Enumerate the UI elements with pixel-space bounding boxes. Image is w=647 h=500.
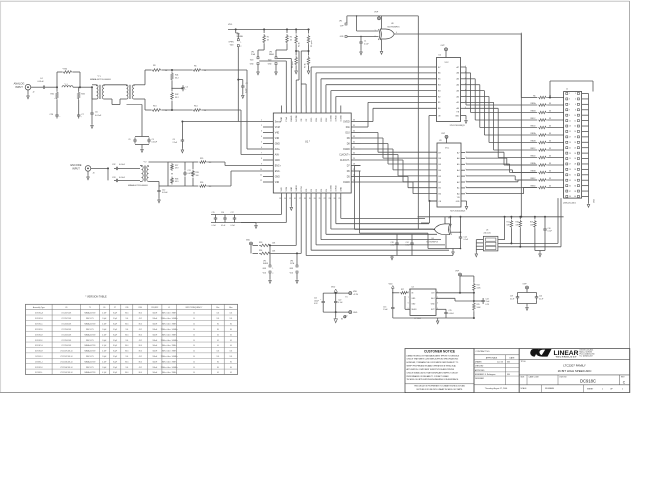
- wire top of connector: [550, 80, 593, 82]
- svg-text:LTC2206CUK: LTC2206CUK: [61, 329, 72, 331]
- svg-text:V4D: V4D: [275, 138, 280, 140]
- wire encode to ADC ENC-: [208, 185, 232, 187]
- svg-text:23: 23: [569, 153, 571, 155]
- svg-text:DC918C-H: DC918C-H: [35, 351, 44, 353]
- ground ADC bottom: [290, 201, 292, 207]
- wire gate output down right: [520, 34, 522, 217]
- connector J1 pins: [566, 93, 568, 95]
- svg-text:80: 80: [230, 367, 232, 369]
- svg-text:C32: C32: [112, 164, 115, 166]
- svg-text:RN1C: RN1C: [530, 118, 536, 120]
- wire U4 ADJ: [436, 297, 455, 299]
- wire CLKOUT- vertical: [360, 170, 361, 172]
- svg-text:8.2pF: 8.2pF: [113, 372, 117, 374]
- svg-text:C15: C15: [212, 212, 215, 214]
- svg-text:38: 38: [574, 191, 576, 193]
- svg-text:8.2pF: 8.2pF: [113, 313, 117, 315]
- svg-text:40: 40: [217, 345, 219, 347]
- svg-text:5: 5: [569, 104, 570, 106]
- svg-text:3.9pF: 3.9pF: [113, 340, 117, 342]
- svg-text:3: 3: [569, 99, 570, 101]
- wire bundle ADC D15-D12 to U2: [310, 67, 312, 106]
- svg-text:C33: C33: [112, 177, 115, 179]
- svg-text:U1 *: U1 *: [305, 140, 310, 144]
- svg-text:R18: R18: [516, 222, 519, 224]
- U5 left pins: [476, 239, 483, 241]
- svg-text:CONTRACT NO.: CONTRACT NO.: [476, 350, 491, 353]
- svg-text:WBC1-1TL: WBC1-1TL: [86, 329, 94, 331]
- resistor R4 divider bottom: [295, 45, 297, 56]
- U5 right pins wires: [498, 239, 505, 241]
- version table rows: [26, 314, 238, 316]
- wire ADC bottom left pins to bypass caps: [280, 201, 282, 215]
- svg-text:0.1uF: 0.1uF: [510, 298, 514, 300]
- wire analog to ADC AIN+: [246, 70, 248, 149]
- svg-text:GND: GND: [281, 116, 283, 121]
- approvals rows: [505, 355, 507, 385]
- svg-text:0.01uF: 0.01uF: [449, 313, 454, 315]
- svg-text:C19: C19: [510, 296, 513, 298]
- svg-text:0.01uF: 0.01uF: [95, 115, 102, 117]
- svg-text:1: 1: [602, 388, 603, 390]
- svg-text:74VCX16244BQX: 74VCX16244BQX: [450, 211, 466, 213]
- svg-text:R6: R6: [194, 66, 196, 68]
- wire divider to MODE pin: [296, 50, 299, 52]
- svg-text:R4 open: R4 open: [292, 62, 294, 68]
- U1 top pins: [280, 106, 282, 114]
- svg-text:86.6: 86.6: [139, 372, 142, 374]
- wire secondary bottom to R13: [134, 98, 145, 100]
- svg-text:8.2pF: 8.2pF: [113, 334, 117, 336]
- wire secondary top to R8: [134, 84, 145, 86]
- svg-text:3.9pF: 3.9pF: [113, 356, 117, 358]
- svg-text:U2: U2: [439, 55, 441, 57]
- svg-text:CIRCUIT THAT MEETS CUSTOMER-SU: CIRCUIT THAT MEETS CUSTOMER-SUPPLIED SPE…: [407, 358, 459, 361]
- svg-text:86.6: 86.6: [139, 313, 142, 315]
- ground U2: [465, 116, 467, 120]
- svg-text:19: 19: [309, 198, 311, 200]
- resistor R25 100K: [473, 302, 476, 312]
- svg-text:8.2pF: 8.2pF: [113, 324, 117, 326]
- svg-text:TECHNOLOGY APPLICATIONS ENGINE: TECHNOLOGY APPLICATIONS ENGINEERING FOR …: [407, 378, 460, 381]
- resistor R24 100K: [473, 282, 476, 292]
- svg-text:Rb: Rb: [533, 95, 535, 97]
- capacitor C17 0.1uF: [234, 216, 236, 218]
- U1 right pins: [351, 121, 360, 123]
- svg-text:DC918C-B: DC918C-B: [35, 318, 43, 320]
- transformer T2 core: [129, 85, 131, 99]
- svg-text:LTC2206CUK-14: LTC2206CUK-14: [60, 361, 72, 363]
- svg-text:* VERSION TABLE: * VERSION TABLE: [85, 296, 107, 299]
- resistor R13: [151, 109, 162, 112]
- svg-text:86.6: 86.6: [125, 361, 128, 363]
- wire JP1 to gate: [347, 36, 379, 38]
- svg-text:80: 80: [217, 324, 219, 326]
- svg-text:35: 35: [569, 185, 571, 187]
- svg-text:43.2: 43.2: [139, 318, 142, 320]
- svg-text:R39: R39: [196, 172, 199, 174]
- svg-text:AIN+: AIN+: [275, 148, 281, 151]
- svg-text:APPROVALS: APPROVALS: [486, 357, 498, 360]
- svg-text:THIS CIRCUIT IS PROPRIETARY TO: THIS CIRCUIT IS PROPRIETARY TO LINEAR TE…: [414, 385, 466, 388]
- svg-text:WBC1-1TL: WBC1-1TL: [86, 318, 94, 320]
- svg-text:C24: C24: [406, 242, 409, 244]
- svg-text:R38: R38: [175, 178, 178, 180]
- svg-text:105: 105: [217, 351, 220, 353]
- resistor R33 10K: [253, 244, 259, 246]
- svg-text:U3: U3: [439, 140, 441, 142]
- svg-text:DATE: DATE: [510, 357, 516, 360]
- wire CLKOUT+ vertical: [355, 165, 361, 167]
- svg-text:80: 80: [217, 329, 219, 331]
- svg-text:R13: R13: [153, 106, 156, 108]
- capacitor C1 0.1uF: [360, 36, 361, 37]
- svg-text:33: 33: [549, 118, 551, 120]
- svg-text:NC7SV86P5X: NC7SV86P5X: [427, 242, 439, 244]
- svg-text:86.6: 86.6: [125, 334, 128, 336]
- ground JP5: [269, 273, 271, 279]
- resistor R39 100: [192, 162, 194, 169]
- svg-text:PERFORMANCE OR RELIABILITY. CO: PERFORMANCE OR RELIABILITY. CONTACT LINE…: [407, 375, 450, 378]
- svg-text:0.01uF: 0.01uF: [119, 177, 126, 179]
- svg-text:RN3B: RN3B: [531, 170, 537, 172]
- wire: [47, 86, 57, 88]
- op IC U1 LTC2207 box: [273, 113, 351, 193]
- connector J3 encode input: [85, 166, 91, 172]
- svg-text:0.01uF: 0.01uF: [162, 192, 168, 194]
- svg-text:43.2: 43.2: [139, 340, 142, 342]
- svg-text:RN2D: RN2D: [530, 155, 536, 157]
- svg-text:RN2B: RN2B: [531, 140, 537, 142]
- wire: [31, 86, 41, 88]
- svg-text:33: 33: [549, 148, 551, 150]
- svg-text:10: 10: [574, 115, 576, 117]
- svg-text:21: 21: [319, 198, 321, 200]
- wire: [91, 167, 108, 169]
- svg-text:RN3A: RN3A: [531, 162, 537, 165]
- svg-text:APPLICATION. COMPONENT SUBSTIT: APPLICATION. COMPONENT SUBSTITUTION AND …: [407, 368, 455, 371]
- svg-text:U6: U6: [432, 238, 434, 240]
- title row divider: [519, 358, 630, 360]
- turret E2 GND: [349, 311, 352, 314]
- svg-text:GND: GND: [275, 160, 280, 162]
- svg-text:34: 34: [353, 131, 355, 133]
- svg-text:1.8pF: 1.8pF: [102, 318, 106, 320]
- svg-text:C1: C1: [364, 41, 366, 43]
- svg-text:86.6: 86.6: [139, 361, 142, 363]
- wire gate U6 input1 from rail: [450, 216, 452, 218]
- svg-text:RN2A: RN2A: [531, 132, 537, 135]
- svg-text:4.7uF: 4.7uF: [338, 302, 342, 304]
- svg-text:U4: U4: [412, 287, 414, 289]
- svg-text:C11: C11: [188, 170, 191, 172]
- svg-text:R30: R30: [139, 307, 142, 309]
- svg-text:25: 25: [338, 198, 340, 200]
- capacitor C22 4.7uF: [335, 293, 337, 299]
- wire JP1 net vertical: [417, 16, 419, 229]
- svg-text:43.2: 43.2: [139, 329, 142, 331]
- svg-text:Min: Min: [216, 307, 219, 309]
- svg-text:3: 3: [261, 131, 262, 133]
- svg-text:4.7pF: 4.7pF: [102, 351, 106, 353]
- svg-text:32: 32: [574, 175, 576, 177]
- svg-text:10: 10: [260, 169, 262, 171]
- svg-text:17: 17: [299, 198, 301, 200]
- svg-text:15: 15: [289, 198, 291, 200]
- svg-text:LTC2204CUK: LTC2204CUK: [61, 345, 72, 347]
- border frame bottom: [0, 392, 406, 394]
- svg-text:100uF: 100uF: [314, 300, 319, 302]
- svg-text:8/06: 8/06: [507, 362, 510, 364]
- svg-text:WBC1-1TL: WBC1-1TL: [86, 367, 94, 369]
- svg-text:V4D: V4D: [275, 132, 280, 134]
- capacitor C6 0.01uF: [91, 87, 93, 110]
- svg-text:8.2pF: 8.2pF: [113, 351, 117, 353]
- svg-text:C2: C2: [246, 83, 248, 85]
- svg-text:25: 25: [569, 158, 571, 160]
- capacitor C10 0.1uF: [544, 217, 546, 227]
- ground bypass caps: [241, 222, 256, 224]
- wire riser to rail: [448, 217, 450, 219]
- wire: [92, 98, 97, 100]
- ground JP3: [275, 65, 277, 71]
- wire: [80, 86, 92, 88]
- svg-text:3.9pF: 3.9pF: [113, 329, 117, 331]
- svg-text:0.1uF: 0.1uF: [212, 225, 216, 227]
- svg-text:APPROVED: APPROVED: [475, 369, 485, 372]
- capacitor C34 under T2: [149, 181, 160, 183]
- svg-text:105: 105: [217, 356, 220, 358]
- svg-text:VCM: VCM: [275, 127, 280, 129]
- svg-text:12: 12: [574, 120, 576, 122]
- ground under R4: [295, 66, 297, 70]
- svg-text:43.2: 43.2: [139, 356, 142, 358]
- svg-text:U5: U5: [486, 230, 488, 232]
- svg-text:LTC2207CUK-14: LTC2207CUK-14: [60, 356, 72, 358]
- svg-text:DC918C-E: DC918C-E: [35, 334, 43, 336]
- svg-text:R34: R34: [259, 250, 262, 252]
- svg-text:RN1D: RN1D: [530, 125, 536, 127]
- svg-text:30: 30: [574, 169, 576, 171]
- capacitor C18 0.1uF bundle: [396, 234, 398, 240]
- jumper JP2 PGA: [263, 44, 265, 50]
- svg-text:OGND: OGND: [343, 149, 350, 151]
- svg-text:RN3C: RN3C: [530, 178, 536, 180]
- gate U6 ground pin: [445, 235, 447, 249]
- resistor R17 10K: [510, 217, 512, 219]
- svg-text:14: 14: [574, 126, 576, 128]
- svg-text:10: 10: [193, 372, 195, 374]
- svg-text:86.6: 86.6: [139, 345, 142, 347]
- svg-text:80: 80: [230, 329, 232, 331]
- power entry bottom rail: [323, 311, 349, 313]
- svg-text:VDD: VDD: [331, 287, 336, 289]
- svg-text:35: 35: [353, 125, 355, 127]
- svg-text:86.6: 86.6: [139, 334, 142, 336]
- svg-text:100: 100: [196, 175, 199, 177]
- capacitor C19 0.1uF: [518, 292, 537, 294]
- svg-text:13: 13: [279, 198, 281, 200]
- svg-text:C18: C18: [391, 242, 394, 244]
- svg-text:OGND: OGND: [343, 182, 350, 184]
- capacitor C26: [56, 100, 58, 113]
- wire bundle ADC bottom D4-D0: [305, 201, 307, 256]
- svg-text:U8: U8: [391, 23, 393, 25]
- svg-text:86.6: 86.6: [125, 324, 128, 326]
- svg-text:QSE-020-40D1: QSE-020-40D1: [563, 202, 576, 204]
- svg-text:33: 33: [549, 163, 551, 165]
- svg-text:65: 65: [217, 372, 219, 374]
- svg-text:OVDD: OVDD: [336, 115, 338, 122]
- svg-text:GND: GND: [275, 143, 280, 145]
- wire bundle ADC D9-D5 to U3: [361, 132, 379, 134]
- ground JP2: [257, 65, 259, 71]
- svg-text:OGND: OGND: [331, 115, 333, 122]
- connector J1 right ground bus: [588, 94, 590, 204]
- resistor R32: [78, 87, 80, 91]
- svg-text:74VCX16244BQX: 74VCX16244BQX: [450, 125, 466, 127]
- svg-text:C3: C3: [152, 139, 154, 141]
- svg-text:RN2C: RN2C: [530, 148, 536, 150]
- pull-up rail OVP: [418, 216, 564, 218]
- transformer T1 secondary winding: [103, 85, 104, 99]
- svg-text:31: 31: [353, 147, 355, 149]
- ground under R7: [308, 66, 310, 70]
- ground bundle caps: [391, 256, 394, 260]
- connector J1 box: [564, 92, 582, 199]
- svg-text:CIRCUIT BOARD LAYOUT MAY SIGNI: CIRCUIT BOARD LAYOUT MAY SIGNIFICANTLY A…: [407, 371, 459, 374]
- svg-text:4.7pF: 4.7pF: [102, 345, 106, 347]
- svg-text:105: 105: [217, 313, 220, 315]
- wire OF pin up: [305, 84, 307, 106]
- svg-text:15: 15: [569, 131, 571, 133]
- svg-text:18: 18: [574, 137, 576, 139]
- svg-text:VCC: VCC: [445, 148, 450, 150]
- svg-text:10: 10: [193, 324, 195, 326]
- svg-text:ENGINEER: S. Rekimguna: ENGINEER: S. Rekimguna: [475, 374, 495, 376]
- svg-text:4.7pF: 4.7pF: [102, 313, 106, 315]
- svg-text:86.6: 86.6: [125, 372, 128, 374]
- svg-text:1: 1: [569, 93, 570, 95]
- resistor R37 49.9: [168, 161, 172, 163]
- wire bundle U3 outputs to RN rows: [466, 151, 504, 153]
- transformer T2 encode secondary: [147, 166, 149, 182]
- svg-text:C17: C17: [231, 212, 234, 214]
- svg-text:CLKOUT-: CLKOUT-: [340, 160, 350, 162]
- svg-text:C10: C10: [548, 228, 551, 230]
- svg-text:0.01uF: 0.01uF: [119, 164, 126, 166]
- svg-text:GND: GND: [353, 312, 358, 314]
- svg-text:RN3D: RN3D: [530, 185, 536, 187]
- svg-text:1.8pF: 1.8pF: [102, 356, 106, 358]
- svg-text:1.8pF: 1.8pF: [102, 340, 106, 342]
- svg-text:R25: R25: [477, 304, 480, 306]
- svg-text:33.2: 33.2: [175, 97, 179, 99]
- svg-text:20: 20: [314, 198, 316, 200]
- wire bundle ADC D11-D10 to U2: [361, 126, 369, 128]
- svg-text:86.6: 86.6: [125, 345, 128, 347]
- svg-text:Max: Max: [229, 307, 232, 309]
- svg-text:33: 33: [353, 136, 355, 138]
- svg-text:28: 28: [574, 164, 576, 166]
- svg-text:0.1uF: 0.1uF: [539, 298, 543, 300]
- svg-text:17: 17: [569, 137, 571, 139]
- svg-text:DRAWN: DRAWN: [475, 361, 482, 364]
- svg-text:11: 11: [260, 175, 262, 177]
- svg-text:0.01uF: 0.01uF: [152, 142, 158, 144]
- svg-text:R41: R41: [175, 75, 178, 77]
- svg-text:65: 65: [217, 340, 219, 342]
- wire T1 to T2 coupling: [104, 84, 127, 86]
- wire top line to gate input: [356, 16, 358, 31]
- capacitor C20 0.1uF: [536, 293, 538, 295]
- svg-text:33: 33: [549, 178, 551, 180]
- wire sense line: [182, 121, 263, 123]
- resistor R2 1K: [286, 29, 288, 33]
- svg-text:100: 100: [125, 340, 128, 342]
- svg-text:14: 14: [284, 198, 286, 200]
- svg-text:M/ABA-007159-000000: M/ABA-007159-000000: [90, 78, 112, 81]
- svg-text:R17: R17: [507, 222, 510, 224]
- svg-text:86.6: 86.6: [125, 351, 128, 353]
- svg-text:34: 34: [574, 180, 576, 182]
- ground rail right: [535, 250, 545, 252]
- svg-text:VCM: VCM: [286, 187, 288, 192]
- svg-text:12: 12: [260, 180, 262, 182]
- svg-text:LTC2207 FAMILY: LTC2207 FAMILY: [563, 364, 586, 368]
- resistor R30: [56, 72, 58, 87]
- svg-text:FILENAME: FILENAME: [545, 387, 555, 390]
- svg-text:LTC2207CUK: LTC2207CUK: [61, 313, 72, 315]
- capacitor C7: [78, 100, 80, 113]
- svg-text:10: 10: [193, 367, 195, 369]
- wire OVP to divider: [460, 275, 474, 277]
- svg-text:0.1uF: 0.1uF: [231, 225, 235, 227]
- transformer T2 encode core: [143, 166, 145, 182]
- wire encode network: [149, 161, 169, 163]
- svg-text:65: 65: [230, 334, 232, 336]
- svg-text:T1: T1: [89, 307, 91, 309]
- svg-text:DC918C-G: DC918C-G: [35, 345, 44, 347]
- svg-text:* R30: * R30: [62, 69, 68, 71]
- svg-text:4.7pF: 4.7pF: [102, 361, 106, 363]
- svg-text:10: 10: [193, 356, 195, 358]
- svg-text:C7: C7: [114, 307, 116, 309]
- svg-text:105: 105: [230, 318, 233, 320]
- svg-text:GND: GND: [275, 176, 280, 178]
- svg-text:16: 16: [294, 198, 296, 200]
- svg-text:V4D: V4D: [281, 187, 283, 192]
- svg-text:1.8pF: 1.8pF: [102, 367, 106, 369]
- svg-text:VCC: VCC: [445, 62, 450, 64]
- svg-text:10: 10: [193, 345, 195, 347]
- ground JP6: [296, 273, 298, 279]
- svg-text:DC918C: DC918C: [580, 379, 596, 384]
- svg-text:16 BIT HIGH SPEED ADC: 16 BIT HIGH SPEED ADC: [558, 369, 592, 373]
- svg-text:June '06: June '06: [497, 362, 503, 364]
- svg-text:OGND: OGND: [331, 185, 333, 192]
- svg-text:C22: C22: [338, 299, 341, 301]
- svg-text:INPUT: INPUT: [72, 166, 80, 170]
- size cage dwg row: [519, 374, 630, 376]
- svg-text:SHDN: SHDN: [296, 185, 298, 191]
- power entry top rail: [323, 292, 349, 294]
- wire DITH pin down: [300, 201, 302, 254]
- svg-text:100: 100: [125, 367, 128, 369]
- svg-text:LTC2206CUK: LTC2206CUK: [61, 324, 72, 326]
- svg-text:AIN-: AIN-: [275, 153, 280, 156]
- svg-text:0.1uF: 0.1uF: [548, 231, 552, 233]
